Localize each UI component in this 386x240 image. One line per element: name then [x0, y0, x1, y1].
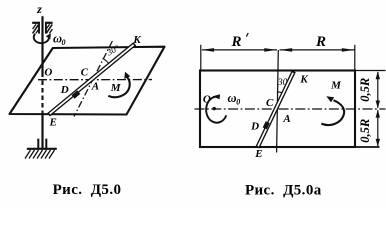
svg-text:E: E — [49, 117, 57, 129]
svg-text:C: C — [266, 97, 274, 109]
ball D on rod — [72, 90, 81, 98]
bottom edge extension right — [355, 146, 380, 148]
angle arc 30deg right figure — [277, 92, 283, 94]
svg-text:z: z — [36, 2, 42, 16]
moment M curved arrow right — [321, 100, 344, 125]
svg-text:M: M — [110, 82, 122, 94]
plate (parallelogram) — [10, 47, 165, 115]
svg-text:0: 0 — [62, 38, 66, 47]
svg-text:M: M — [330, 80, 342, 92]
node O dot — [213, 107, 216, 110]
svg-text:ω: ω — [228, 91, 237, 105]
prime tick — [246, 33, 248, 37]
svg-text:A: A — [282, 113, 290, 125]
R dimension line — [280, 49, 355, 51]
svg-text:R: R — [230, 34, 241, 50]
svg-text:Рис. Д5.0а: Рис. Д5.0а — [245, 182, 322, 198]
0,5R lower dimension — [377, 110, 379, 146]
svg-text:E: E — [254, 148, 262, 160]
svg-text:O: O — [44, 66, 52, 78]
ball D right — [263, 121, 270, 129]
z axis upper solid shaft — [41, 16, 43, 77]
left extension line — [200, 45, 202, 71]
svg-text:D: D — [60, 84, 69, 96]
moment M curved arrow left — [108, 77, 129, 97]
svg-text:0: 0 — [236, 97, 240, 106]
svg-text:K: K — [132, 34, 141, 46]
ground line — [27, 148, 57, 150]
omega0 rotation arrow left — [34, 34, 49, 43]
ground support hatching — [25, 150, 55, 159]
right extension line — [354, 45, 356, 71]
svg-text:C: C — [81, 67, 89, 79]
rod EK (double line) — [49, 44, 135, 115]
30deg reference dash-dot line — [74, 41, 112, 117]
svg-text:Рис. Д5.0: Рис. Д5.0 — [53, 182, 122, 198]
bearing left block — [32, 22, 40, 34]
vertical reference line through K — [277, 50, 279, 153]
svg-text:D: D — [250, 121, 259, 133]
top edge extension right — [355, 70, 386, 72]
svg-text:0,5R: 0,5R — [358, 119, 372, 143]
R' dimension line — [202, 49, 277, 51]
svg-text:A: A — [91, 81, 99, 93]
omega0 rotation arrow right — [206, 97, 226, 123]
svg-text:0,5R: 0,5R — [358, 78, 372, 102]
svg-text:K: K — [299, 73, 308, 85]
svg-text:R: R — [315, 34, 326, 50]
angle arc 30deg left figure — [103, 58, 111, 66]
center line right (dash-dot with right extension) — [195, 108, 386, 110]
bearing right block — [45, 22, 53, 34]
center line (dash-dot) of plate — [38, 79, 152, 81]
rectangle plate (top view) — [200, 71, 355, 148]
z axis lower solid shaft — [41, 114, 43, 149]
0,5R upper dimension — [377, 72, 379, 108]
z axis hidden dashed part — [41, 81, 43, 115]
rod EK right (double line) — [257, 71, 293, 147]
thrust bearing prongs — [37, 139, 39, 149]
